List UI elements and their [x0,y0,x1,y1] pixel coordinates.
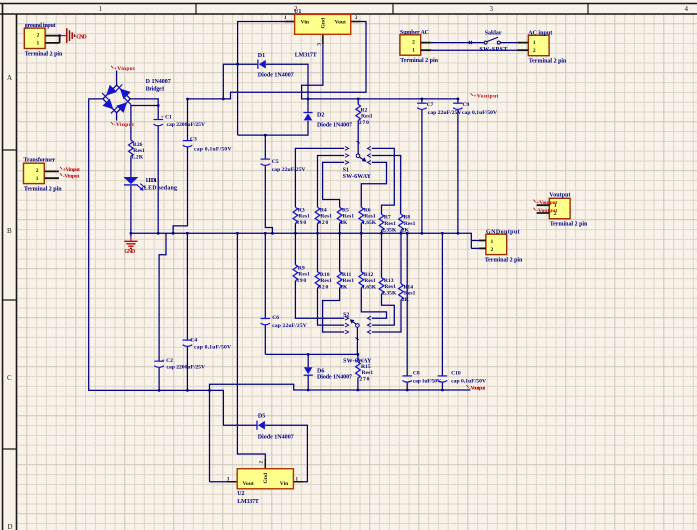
svg-text:Saklar: Saklar [485,30,502,36]
svg-text:Terminal 2 pin: Terminal 2 pin [550,222,588,228]
svg-text:2: 2 [491,247,494,253]
svg-text:SW-6WAY: SW-6WAY [343,174,372,180]
resistor R7 [379,214,397,233]
svg-text:1,65K: 1,65K [362,285,377,291]
diode D2 [303,113,312,121]
svg-text:A: A [7,74,12,82]
resistor R2 [356,104,373,126]
wire GND bus [131,233,471,248]
wire S1 right contact 3 to R6 [361,162,386,207]
wire S1 left contact 3 to R5 [323,162,345,207]
svg-text:cap 0,1uF/50V: cap 0,1uF/50V [462,110,497,116]
svg-text:3: 3 [490,5,494,13]
svg-text:LM317T: LM317T [295,53,317,59]
svg-text:2: 2 [533,48,536,54]
svg-text:1: 1 [99,5,103,13]
resistor R12 [359,272,377,291]
resistor R10 [315,272,332,291]
svg-text:LM337T: LM337T [237,499,259,505]
svg-text:+ C2: + C2 [162,358,174,364]
zone dividers top band [196,4,588,15]
svg-text:Diode 1N4007: Diode 1N4007 [317,375,352,381]
wire +raw: bridge right to C1 column down to GND bus [130,99,158,233]
bridge diamond outline [103,85,130,113]
svg-text:Res1: Res1 [298,272,310,278]
svg-text:1,2K: 1,2K [131,155,144,161]
wire C8 column [406,233,408,390]
svg-text:2,35K: 2,35K [382,227,397,233]
wire R15 [357,354,359,390]
svg-text:2K: 2K [402,297,410,303]
capacitor C10 [438,371,486,385]
svg-text:Terminal 2 pin: Terminal 2 pin [529,59,567,65]
wire LM317 ADJ pin jog [302,34,323,99]
wire bridge AC bottom [116,113,118,121]
svg-text:cap 2200uF/25V: cap 2200uF/25V [167,122,206,128]
svg-text:Vin: Vin [301,20,310,26]
svg-text:cap 22uF/25V: cap 22uF/25V [272,323,307,329]
svg-text:Res1: Res1 [133,148,145,154]
capacitor C2 [154,358,205,370]
svg-text:cap 0,1uF/50V: cap 0,1uF/50V [194,147,232,153]
capacitor C4 [183,338,231,351]
svg-text:+Vinput: +Vinput [114,66,135,72]
resistor R3 [293,207,310,226]
resistor R13 [379,278,397,297]
switch S1 SW-6WAY [343,141,372,180]
wire R9 bottom to S2 left contact 1 [295,281,344,319]
svg-text:820: 820 [318,220,328,226]
capacitor C8 [402,371,440,385]
svg-text:D 1N4007: D 1N4007 [146,79,171,85]
wire D1 branch vertical [223,64,257,99]
wire C4 column [186,233,188,390]
svg-text:SW-SPST: SW-SPST [479,47,507,53]
svg-text:C8: C8 [413,371,420,377]
wire R10 bottom to S2 left contact 2 [318,288,345,325]
wire C7 column [421,99,423,233]
resistor R14 [399,284,416,303]
svg-text:D1: D1 [258,53,265,59]
svg-text:Res1: Res1 [384,221,396,227]
AC input pin stub overlay [518,43,529,51]
wire R14 bottom to S2 right contact 2 [372,300,401,332]
ground earth symbol GND (under LED) [124,241,137,248]
wire S2 pole down to L3 [356,327,358,354]
svg-text:2K: 2K [402,227,410,233]
svg-text:AC input: AC input [528,30,552,36]
svg-text:+Voutput: +Voutput [473,93,498,99]
GNDoutput pin stub overlay [479,241,486,249]
svg-text:C6: C6 [272,315,279,321]
wire L3 line C6 to R15 node [265,353,358,355]
wire GNDoutput pin stubs [471,241,479,249]
wire D5 to LM337 Vin [265,425,308,482]
svg-text:Vin: Vin [280,481,289,487]
op-amp U1 LM317T regulator box [284,9,358,59]
svg-text:D5: D5 [258,414,265,420]
terminal AC input [528,30,567,64]
wire R13 bottom to S2 right contact 1 [372,294,395,325]
terminal GNDoutput [485,229,523,263]
net label -Vinput (bridge bottom) [111,122,113,125]
svg-text:270: 270 [359,120,369,126]
svg-text:4: 4 [685,5,689,13]
svg-text:B: B [7,227,12,235]
svg-text:cap 2200uF/25V: cap 2200uF/25V [167,365,206,371]
svg-text:1K: 1K [340,220,348,226]
LED1 [123,177,138,184]
resistor R11 [337,272,354,291]
svg-text:LED1: LED1 [146,178,157,184]
svg-text:cap 0,1uF/50V: cap 0,1uF/50V [451,378,486,384]
svg-text:D6: D6 [317,368,324,374]
svg-text:C10: C10 [451,371,461,377]
capacitor C9 [453,102,497,116]
capacitor C6 [261,315,307,329]
svg-text:Diode 1N4007: Diode 1N4007 [317,123,352,129]
svg-text:C7: C7 [427,102,434,108]
svg-text:Terminal 2 pin: Terminal 2 pin [485,258,523,264]
svg-text:SW-6WAY: SW-6WAY [343,359,372,365]
capacitor C1 [153,114,205,128]
capacitor C3 [183,137,232,153]
svg-text:Sumber AC: Sumber AC [400,30,429,36]
wire C3 column [173,99,187,233]
svg-text:R9: R9 [298,265,305,271]
transformer pin stubs [44,171,59,178]
svg-text:1K: 1K [340,285,348,291]
svg-text:Vout: Vout [335,20,346,26]
svg-text:270: 270 [359,377,369,383]
svg-text:Res1: Res1 [298,214,310,220]
svg-text:cap 22uF/25V: cap 22uF/25V [272,167,306,173]
svg-text:1: 1 [412,47,415,53]
svg-text:LED sedang: LED sedang [144,186,177,192]
svg-text:Terminal 2 pin: Terminal 2 pin [400,58,438,64]
svg-text:Diode 1N4007: Diode 1N4007 [258,72,294,78]
svg-text:cap 1uF/50V: cap 1uF/50V [413,378,441,384]
svg-text:Voutput: Voutput [549,193,570,199]
zone dividers left band [3,150,17,449]
svg-text:U1: U1 [294,9,301,15]
svg-text:Res1: Res1 [362,370,374,376]
net label -Voutput (bus end) [467,385,469,388]
LM317 pin stubs (black) [285,22,361,45]
wire C6 column [264,233,266,354]
terminal Voutput [549,193,588,228]
svg-text:390: 390 [296,220,306,226]
capacitor C5 [261,159,306,173]
wire C5 column [265,135,272,233]
wire R11 bottom to S2 left contact 3 [323,288,345,332]
wire S1 right contact 1 to R7 [372,148,395,214]
svg-text:820: 820 [318,285,328,291]
resistor R15 [356,362,374,383]
svg-text:-Vinput: -Vinput [114,122,134,128]
svg-text:C3: C3 [190,137,197,143]
svg-text:+ C1: + C1 [161,114,173,120]
wire Sumber AC to AC input (bottom) [421,49,529,51]
svg-text:Res1: Res1 [364,214,376,220]
ground power symbol GND (top left) [67,28,75,43]
svg-text:R7: R7 [384,215,391,221]
net label -Voutput (terminal) [533,208,535,211]
svg-text:R11: R11 [342,272,352,278]
svg-text:ground input: ground input [25,23,56,29]
svg-text:C9: C9 [463,102,470,108]
svg-text:S2: S2 [343,313,349,319]
wire D2 bottom + LD2 line [238,121,308,135]
svg-text:2: 2 [37,33,40,39]
svg-text:R6: R6 [364,207,371,213]
wire bridge AC top [116,71,118,86]
svg-text:+Voutput: +Voutput [536,200,557,206]
svg-text:-Vinput: -Vinput [63,174,80,180]
wire ADJ/output bus y=98.9 [308,98,458,100]
ground input pin stubs [45,36,60,43]
svg-text:1: 1 [36,176,39,182]
svg-text:Bridge1: Bridge1 [146,86,165,92]
wire GND net from ground input terminal (red lead) [60,35,67,37]
svg-text:Gnd: Gnd [321,17,327,28]
wire branch to R26/LED column [131,106,158,238]
svg-text:D2: D2 [317,112,324,118]
svg-text:GND: GND [76,34,87,40]
svg-text:R2: R2 [361,107,368,113]
capacitor C7 [417,102,461,116]
svg-text:Transformer: Transformer [24,157,56,163]
svg-text:R26: R26 [133,142,143,148]
wire LM317 Vout net: right, down, left, step, to C3 top [188,22,367,99]
wire Sumber AC to Saklar to AC input (top) [421,42,529,44]
wire LM337 Vout pin stub [210,481,238,483]
wire -V output bus (right part) with LM337 Vout riser [210,384,471,482]
svg-text:Res1: Res1 [364,278,376,284]
svg-text:Res1: Res1 [343,214,355,220]
svg-text:1: 1 [37,41,40,47]
wire R2 column bus to switch pole [357,99,359,154]
svg-text:S1: S1 [343,167,349,173]
svg-text:1,65K: 1,65K [362,220,377,226]
svg-text:-Voutput: -Voutput [469,385,485,391]
svg-text:Gnd: Gnd [263,472,269,483]
svg-text:-Voutput: -Voutput [536,208,557,214]
svg-text:R5: R5 [342,207,349,213]
resistor R5 [337,207,354,226]
wire S1 left contact 2 to R4 [318,156,345,208]
svg-text:Vout: Vout [243,481,254,487]
wire R12 bottom to S2 right contact 3 [361,288,386,319]
wire junction marker [469,41,472,44]
wire S1 right contact 2 to R8 [372,156,401,215]
wire C9 column [457,99,459,233]
svg-text:GND: GND [124,249,135,255]
svg-text:Res1: Res1 [384,284,396,290]
svg-text:1: 1 [491,239,494,245]
svg-text:cap 22uF/25V: cap 22uF/25V [428,110,462,116]
net label -Vinput (transformer) [60,173,62,176]
terminal Transformer [24,157,63,192]
terminal Sumber AC [400,30,439,64]
wire C10 column [441,233,443,390]
switch S2 SW-6WAY [343,313,372,365]
svg-text:Diode 1N4007: Diode 1N4007 [258,435,294,441]
svg-text:Res1: Res1 [361,114,373,120]
svg-text:R12: R12 [364,272,374,278]
svg-text:D: D [8,523,13,530]
wire LM337 Gnd column from GND bus [237,233,265,468]
svg-text:+Vinput: +Vinput [63,167,80,173]
LM337 pin stubs (black) [227,459,303,482]
diode D6 [304,367,313,375]
svg-text:390: 390 [296,278,306,284]
net label +Voutput (terminal) [533,200,535,203]
svg-text:Terminal 2 pin: Terminal 2 pin [25,51,63,57]
op-amp U2 LM337T regulator box [227,461,299,505]
svg-text:2: 2 [412,39,415,45]
svg-text:R3: R3 [298,207,305,213]
svg-text:R14: R14 [403,284,413,290]
net label +Vinput (transformer) [60,167,62,170]
resistor R6 [359,207,377,226]
svg-text:C5: C5 [272,159,279,165]
diode D1 [258,60,266,69]
svg-text:R13: R13 [384,278,394,284]
svg-text:C: C [7,374,12,382]
svg-text:2: 2 [36,168,39,174]
svg-text:U2: U2 [237,491,244,497]
svg-text:Res1: Res1 [404,291,416,297]
svg-text:R10: R10 [320,272,330,278]
svg-text:2,35K: 2,35K [382,291,397,297]
diode D5 [257,421,265,430]
resistor R9 [293,265,310,284]
svg-text:cap 0,1uF/50V: cap 0,1uF/50V [194,344,231,350]
Voutput pin stubs [537,205,550,213]
wire -V raw rail: bridge left, down, along bottom bus to D5 [89,99,257,425]
wire C2 column: GND bus jog down to -V bus [159,233,166,390]
wire D1 anode to ADJ node [266,64,308,112]
resistor R8 [399,214,416,233]
wire R9..R14 tops from GND bus [295,233,401,283]
svg-text:Res1: Res1 [404,221,416,227]
net label +Voutput (bus end) [471,93,473,96]
wire D6 column [307,354,309,390]
svg-text:Res1: Res1 [343,278,355,284]
svg-text:GNDoutput: GNDoutput [486,229,520,235]
resistor R26 [129,140,145,160]
net label +Vinput (bridge top) [111,66,113,69]
terminal J ground input [24,23,63,57]
sumber AC pin stub overlay [421,43,431,51]
svg-text:Res1: Res1 [320,278,332,284]
svg-text:R4: R4 [320,207,327,213]
svg-text:Res1: Res1 [320,214,332,220]
svg-text:C4: C4 [190,338,197,344]
svg-text:Terminal 2 pin: Terminal 2 pin [24,187,62,193]
svg-text:1: 1 [533,40,536,46]
switch Saklar SW-SPST [479,30,507,53]
wire S1 left contact 1 to R3 [295,148,344,207]
wire R3..R8 bottoms to GND bus [295,223,401,233]
resistor R4 [315,207,332,226]
svg-text:R8: R8 [403,215,410,221]
wire LM317 Vin pin to Vin column down to LD2 [238,22,295,136]
bridge rectifier Bridge1 diodes [106,85,117,96]
